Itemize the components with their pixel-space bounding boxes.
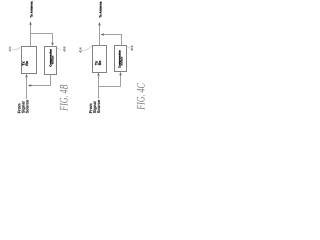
wire branch horizontal top (FIG. 4C)	[104, 34, 123, 36]
svg-text:Module: Module	[51, 55, 54, 64]
svg-text:To Antenna: To Antenna	[30, 1, 34, 17]
arrowhead left into source wire (FIG. 4B)	[28, 84, 31, 86]
svg-text:406: 406	[62, 46, 66, 52]
wire branch vertical into right box (FIG. 4B)	[52, 33, 54, 43]
svg-text:Source: Source	[96, 99, 101, 113]
block Tx/Rx box (FIG. 4C)	[93, 46, 107, 73]
arrowhead up into Tx/Rx box bottom (FIG. 4C)	[97, 72, 99, 75]
svg-text:416: 416	[130, 45, 134, 51]
wire bottom horizontal (FIG. 4C)	[99, 86, 121, 88]
arrowhead up into compression module (FIG. 4C)	[119, 72, 121, 75]
wire source vertical (FIG. 4C)	[98, 75, 100, 98]
arrowhead to antenna (FIG. 4B)	[29, 21, 31, 25]
arrowhead to antenna (FIG. 4C)	[98, 22, 100, 26]
svg-text:To Antenna: To Antenna	[98, 1, 102, 17]
arrowhead down into compression module (FIG. 4B)	[51, 43, 53, 46]
arrowhead left into antenna wire (FIG. 4C)	[101, 33, 104, 35]
svg-text:Rx: Rx	[25, 61, 29, 66]
wire up into compression module bottom (FIG. 4C)	[120, 75, 122, 87]
arrowhead up into Tx/Rx box bottom (FIG. 4B)	[25, 74, 27, 77]
wire bottom horizontal (FIG. 4B)	[31, 85, 51, 87]
wire from compression module bottom (FIG. 4B)	[50, 75, 52, 87]
svg-text:Rx: Rx	[98, 61, 102, 66]
wire branch vertical from right box (FIG. 4C)	[121, 34, 123, 46]
block Tx/Rx box (FIG. 4B)	[22, 47, 37, 74]
svg-text:Source: Source	[25, 99, 30, 113]
wire source vertical (FIG. 4B)	[26, 77, 28, 99]
svg-text:404: 404	[8, 46, 12, 52]
wire antenna vertical (FIG. 4C)	[99, 25, 101, 45]
svg-text:414: 414	[78, 47, 82, 53]
svg-text:Module: Module	[121, 56, 124, 65]
block Compression Module box (FIG. 4B)	[45, 47, 57, 75]
block Compression Module box (FIG. 4C)	[115, 46, 127, 72]
wire antenna vertical (FIG. 4B)	[30, 25, 32, 47]
svg-text:FIG. 4B: FIG. 4B	[57, 84, 70, 111]
wire branch horizontal top (FIG. 4B)	[30, 33, 53, 35]
svg-text:FIG. 4C: FIG. 4C	[134, 82, 147, 110]
